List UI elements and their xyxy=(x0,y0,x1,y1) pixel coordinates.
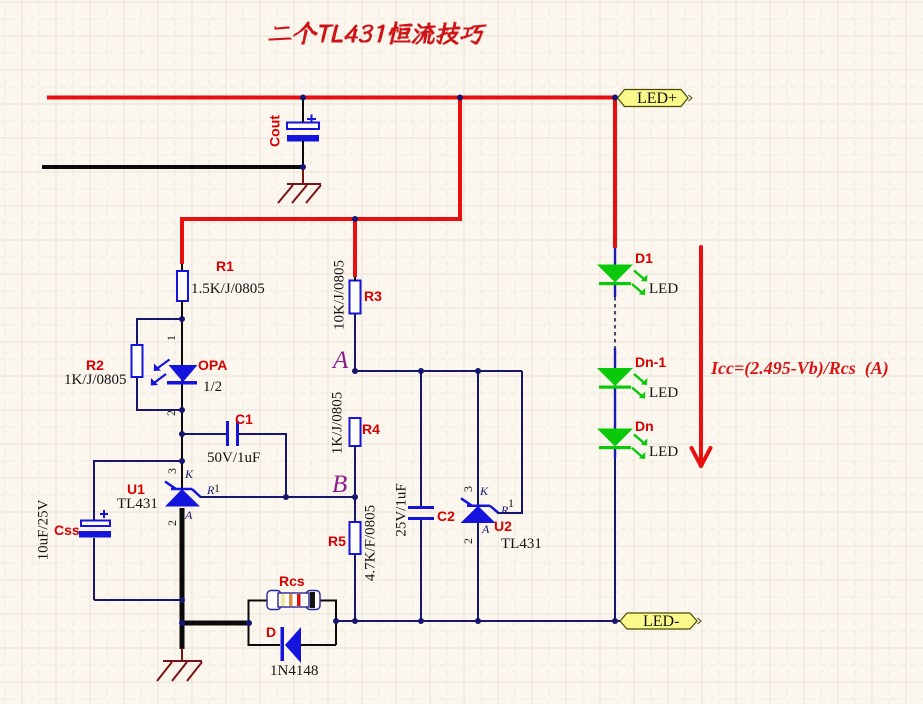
ground bottom xyxy=(157,648,202,681)
junction J17 xyxy=(246,620,252,626)
svg-text:A: A xyxy=(184,508,193,522)
wire: dashed continuation of LED string xyxy=(614,297,616,348)
junction J16 xyxy=(179,620,185,626)
svg-text:B: B xyxy=(332,471,347,498)
junction J22 xyxy=(612,618,618,624)
svg-text:Icc=(2.495-Vb)/Rcs (A): Icc=(2.495-Vb)/Rcs (A) xyxy=(710,358,889,379)
svg-text:LED: LED xyxy=(649,444,678,460)
wire: top red rail LED+ xyxy=(47,96,617,100)
wire: U1 ref to node B xyxy=(200,496,355,498)
resistor R2 xyxy=(64,345,143,388)
ground under Cout xyxy=(278,167,321,203)
wire: red drop to R1 xyxy=(180,219,184,264)
LED Dn xyxy=(597,418,678,460)
junction J3 xyxy=(612,95,618,101)
svg-text:4.7K/F/0805: 4.7K/F/0805 xyxy=(362,505,378,581)
svg-text:D: D xyxy=(266,624,276,640)
wire: red drop at x460 xyxy=(458,98,462,222)
junction J18 xyxy=(333,618,339,624)
svg-text:50V/1uF: 50V/1uF xyxy=(207,450,260,466)
wire: black left rail xyxy=(42,165,305,169)
junction J4 xyxy=(300,164,306,170)
svg-text:R2: R2 xyxy=(86,357,104,373)
svg-text:2: 2 xyxy=(164,410,178,416)
junction J12 xyxy=(352,368,358,374)
svg-text:2: 2 xyxy=(461,538,475,544)
resistor Rcs xyxy=(267,573,320,610)
junction J10 xyxy=(283,494,289,500)
resistor R3 xyxy=(331,260,382,371)
svg-text:Dn-1: Dn-1 xyxy=(635,354,666,370)
svg-text:U1: U1 xyxy=(127,481,145,497)
junction J1 xyxy=(300,95,306,101)
svg-text:1K/J/0805: 1K/J/0805 xyxy=(64,372,127,388)
svg-text:LED: LED xyxy=(649,385,678,401)
svg-text:R3: R3 xyxy=(364,288,382,304)
port LED+ xyxy=(618,90,693,108)
junction J8 xyxy=(179,431,185,437)
resistor R4 xyxy=(329,392,380,497)
svg-text:C1: C1 xyxy=(235,411,253,427)
svg-text:R1: R1 xyxy=(216,258,234,274)
capacitor Cout xyxy=(267,98,319,168)
svg-text:Dn: Dn xyxy=(635,418,654,434)
junction J20 xyxy=(418,618,424,624)
junction J14 xyxy=(475,368,481,374)
svg-text:1/2: 1/2 xyxy=(203,379,222,395)
svg-text:1: 1 xyxy=(508,496,514,510)
wire: second red rail xyxy=(180,217,462,221)
diode D 1N4148 xyxy=(266,624,318,679)
junction J13 xyxy=(418,368,424,374)
wire: thick ground wire vertical xyxy=(180,508,185,649)
junction J9 xyxy=(179,458,185,464)
junction J19 xyxy=(352,618,358,624)
wire: main vertical node K1 xyxy=(181,319,183,488)
LED D1 xyxy=(597,250,678,297)
op-amp U1 TL431 xyxy=(117,467,220,526)
capacitor C2 xyxy=(393,371,455,621)
current direction arrow xyxy=(692,247,711,466)
wire: D1 cathode stub xyxy=(614,284,616,297)
svg-text:1: 1 xyxy=(214,481,220,495)
svg-text:C2: C2 xyxy=(437,508,455,524)
svg-text:LED+: LED+ xyxy=(637,90,677,107)
svg-text:LED: LED xyxy=(649,281,678,297)
opto LED OPA xyxy=(151,335,228,416)
svg-text:TL431: TL431 xyxy=(117,496,158,512)
svg-text:1.5K/J/0805: 1.5K/J/0805 xyxy=(191,281,265,297)
wire: Rcs/D loop xyxy=(249,601,337,646)
port LED- xyxy=(620,613,701,630)
resistor R5 xyxy=(328,497,378,621)
svg-text:2: 2 xyxy=(165,520,179,526)
svg-text:1K/J/0805: 1K/J/0805 xyxy=(329,392,345,455)
svg-text:R5: R5 xyxy=(328,533,346,549)
wire: Dn-1 cathode to Dn anode xyxy=(614,386,616,429)
wire: Dn-1 anode stub xyxy=(614,348,616,369)
op-amp U2 TL431 xyxy=(461,371,542,621)
svg-text:D1: D1 xyxy=(635,250,653,266)
junction J11 xyxy=(352,494,358,500)
wire: R2 branch top xyxy=(137,319,182,345)
wire: Dn cathode to LED- rail xyxy=(614,447,616,458)
capacitor C1 xyxy=(182,411,286,497)
svg-text:OPA: OPA xyxy=(198,357,227,373)
svg-text:10K/J/0805: 10K/J/0805 xyxy=(331,260,347,330)
junction J5 xyxy=(352,216,358,222)
wire: LED+ drop to D1 anode xyxy=(614,248,616,265)
wire: R2 branch bottom xyxy=(137,377,182,410)
svg-text:Rcs: Rcs xyxy=(279,573,305,589)
wire: red drop from LED+ to D1 xyxy=(613,98,617,249)
junction J2 xyxy=(457,95,463,101)
LED Dn-1 xyxy=(597,354,678,401)
svg-text:U2: U2 xyxy=(494,518,512,534)
svg-text:10uF/25V: 10uF/25V xyxy=(35,499,51,560)
svg-text:25V/1uF: 25V/1uF xyxy=(393,483,409,536)
svg-text:R4: R4 xyxy=(362,421,380,437)
svg-text:A: A xyxy=(331,347,349,374)
wire: LED- rail xyxy=(336,620,620,622)
wire: red drop to R3 xyxy=(353,219,357,277)
resistor R1 xyxy=(177,258,265,320)
junction J15 xyxy=(179,597,185,603)
svg-text:1N4148: 1N4148 xyxy=(270,663,318,679)
junction J7 xyxy=(179,407,185,413)
svg-text:3: 3 xyxy=(461,486,475,492)
wire: thick ground wire horizontal xyxy=(182,621,250,626)
svg-text:LED-: LED- xyxy=(643,613,679,630)
svg-text:K: K xyxy=(184,467,194,481)
junction J21 xyxy=(475,618,481,624)
svg-text:TL431: TL431 xyxy=(501,536,542,552)
svg-text:1: 1 xyxy=(164,335,178,341)
junction J6 xyxy=(179,316,185,322)
svg-text:A: A xyxy=(481,522,490,536)
svg-text:Css: Css xyxy=(54,522,80,538)
svg-text:K: K xyxy=(479,484,489,498)
svg-text:Cout: Cout xyxy=(267,115,283,147)
svg-text:3: 3 xyxy=(165,468,179,474)
capacitor Css xyxy=(35,461,182,600)
title 二个TL431恒流技巧 xyxy=(269,22,486,44)
node A wire xyxy=(355,370,522,372)
